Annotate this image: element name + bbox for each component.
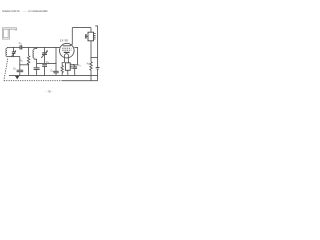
junction dots <box>13 47 92 76</box>
ground rail <box>9 74 98 76</box>
svg-text:N: N <box>46 10 48 13</box>
wire top of tank <box>7 46 20 48</box>
cathode resistor Rk (zigzag) <box>61 63 65 76</box>
grid g1 (dashed) <box>62 49 71 51</box>
capacitor C4 <box>42 65 47 76</box>
link to battery line <box>91 57 98 59</box>
coil L1 (tuning coil) <box>6 48 7 57</box>
grid g2 (dashed) <box>62 47 71 49</box>
svg-text:C4: C4 <box>46 60 50 64</box>
battery cell <box>96 68 100 76</box>
heater/cathode leads <box>64 57 66 63</box>
dashed boundary <box>4 80 62 82</box>
wire L2 bottom to Ck <box>34 59 37 68</box>
svg-text:C2: C2 <box>13 66 17 70</box>
svg-text:- 76 -: - 76 - <box>46 90 53 94</box>
wiper arrow <box>72 64 78 66</box>
cathode <box>64 51 70 53</box>
heater <box>65 54 69 57</box>
tube EF98 envelope <box>60 43 75 58</box>
grid wire <box>22 46 60 48</box>
battery branch right edge <box>95 26 97 68</box>
headphone (earpiece with plug) <box>85 28 96 62</box>
svg-text:—: — <box>23 10 26 13</box>
wire regen node <box>37 62 56 64</box>
capacitor C2 <box>17 57 24 76</box>
wire C2 to R1 node <box>20 64 29 66</box>
wire to R1 <box>28 47 30 55</box>
svg-text:Ca: Ca <box>19 41 23 45</box>
svg-text:1,5-V-Batteriebetrieb: 1,5-V-Batteriebetrieb <box>28 10 48 13</box>
resistor R1 (grid leak, zigzag) <box>27 56 29 76</box>
variable capacitor C5 (regeneration, arrow) <box>41 47 48 63</box>
anode <box>63 44 73 45</box>
capacitor Ck <box>34 68 40 76</box>
stubs below rail <box>91 75 98 80</box>
potentiometer P (rect with taps) <box>65 63 72 76</box>
capacitor C3 <box>72 65 77 76</box>
capacitor C6 (cathode branch) <box>53 47 58 75</box>
svg-text:C3: C3 <box>77 63 81 67</box>
coil L2 (feedback coil) <box>33 47 37 59</box>
boundary line solid right <box>62 80 98 82</box>
wire bottom of tank <box>7 56 20 58</box>
variable capacitor C1 (tuning) <box>11 47 16 57</box>
loop antenna (frame aerial) <box>3 29 16 39</box>
svg-text:EF 98: EF 98 <box>60 38 68 42</box>
capacitor Ca (series antenna/grid cap) <box>20 45 22 49</box>
ground <box>15 76 19 80</box>
top rail <box>72 27 91 29</box>
anode wire up <box>71 28 73 45</box>
dashed mechanical link <box>4 59 8 81</box>
resistor R2 (zigzag) <box>90 62 92 76</box>
svg-text:Einkreiser mit EF 98: Einkreiser mit EF 98 <box>2 10 20 13</box>
svg-text:C6: C6 <box>50 69 54 73</box>
screen grid wire <box>74 47 77 64</box>
